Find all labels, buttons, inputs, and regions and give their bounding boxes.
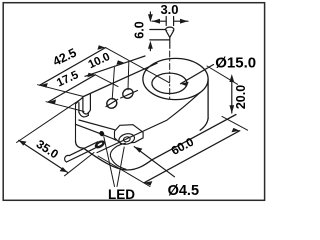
svg-text:LED: LED — [108, 187, 135, 202]
slant extension from 17.5 arrow — [95, 75, 118, 87]
svg-text:Ø4.5: Ø4.5 — [168, 183, 199, 199]
slot inner wall right connector — [87, 112, 89, 115]
centerline (dash-dot) — [169, 51, 171, 100]
svg-text:35.0: 35.0 — [34, 137, 61, 162]
extension line left corner (vertical) — [38, 85, 84, 97]
sensing hole ellipse Ø15 — [152, 73, 187, 93]
mounting hole 1 (crossed ellipse) — [105, 97, 119, 110]
dimension 6.0 bottom arrow — [148, 41, 153, 51]
left face top corner edge — [76, 97, 84, 105]
extension line hole1 (vertical) — [112, 68, 114, 100]
extension line 20.0 top — [207, 66, 238, 84]
dimension line 3.0 left arrow — [152, 19, 166, 24]
svg-text:3.0: 3.0 — [160, 2, 178, 17]
extension line 6.0 lower — [150, 39, 169, 41]
extension line 6.0 upper — [150, 29, 166, 31]
extension line from sensing center (slanted) — [106, 48, 170, 83]
slot inner wall left — [78, 103, 80, 113]
detail cone ellipse — [166, 27, 174, 31]
cylinder bottom arc — [200, 118, 208, 130]
dimension line 20.0 with arrows — [229, 74, 234, 113]
slot bottom arc — [83, 110, 91, 114]
cable end cap — [65, 155, 70, 162]
LED dot — [98, 130, 105, 137]
extension tick right of 3.0 — [173, 17, 175, 26]
extension line 35.0 lower (from cable area) — [65, 153, 95, 176]
cable upper line — [69, 142, 98, 156]
svg-text:6.0: 6.0 — [132, 21, 146, 38]
slot outer left side — [82, 97, 84, 112]
leader arrow Ø4.5 — [134, 147, 174, 177]
detail cone V — [166, 31, 174, 38]
dimension line 42.5 — [40, 45, 106, 87]
mounting hole 2 (crossed ellipse) — [121, 87, 138, 100]
dimension line 60.0 with arrows — [144, 128, 240, 186]
extension line 20.0 bottom / 60.0 right — [222, 116, 248, 130]
svg-text:Ø15.0: Ø15.0 — [215, 55, 256, 72]
extension line hole2 (vertical) — [127, 62, 130, 90]
near top edge left segment — [79, 120, 115, 130]
front face upper contour (lower parallel line) — [76, 124, 117, 140]
detail cone stub line — [169, 37, 171, 48]
extension line 60.0 left — [98, 156, 150, 187]
dimension 6.0 top arrow — [148, 12, 153, 22]
extension line near-left (slanted) — [46, 102, 84, 112]
boss hole inner ellipse — [123, 136, 131, 142]
dimension line 17.5 — [48, 73, 95, 104]
cable lower line — [67, 148, 96, 162]
near top edge line crossing boss, rising to cylinder — [97, 93, 200, 153]
border frame — [3, 3, 264, 201]
fillet contour under boss — [110, 143, 126, 169]
top face far edge — [84, 63, 158, 96]
extension tick left of 3.0 — [165, 17, 167, 26]
LED second leader to boss hole — [117, 147, 124, 187]
slot outer right side — [89, 94, 91, 110]
dimension line 35.0 — [19, 140, 68, 172]
right silhouette of cylinder — [207, 80, 209, 119]
boss hole outer ellipse — [118, 132, 136, 146]
extension line 35.0 upper (from corner A) — [17, 98, 83, 142]
slot inner bottom arc — [79, 112, 88, 117]
LED leader line to dot — [104, 137, 115, 187]
boss on front — [115, 125, 144, 144]
cable gland ellipse — [93, 139, 106, 150]
dimension line 3.0 right arrow — [174, 19, 188, 24]
leader arrow Ø15.0 — [181, 65, 214, 87]
bottom left corner and front bottom curve — [76, 115, 237, 171]
body top ellipse — [143, 58, 208, 99]
svg-text:17.5: 17.5 — [55, 69, 81, 90]
left face vertical edge — [75, 104, 77, 141]
dimension line 10.0 — [85, 56, 145, 76]
svg-text:20.0: 20.0 — [234, 85, 248, 109]
